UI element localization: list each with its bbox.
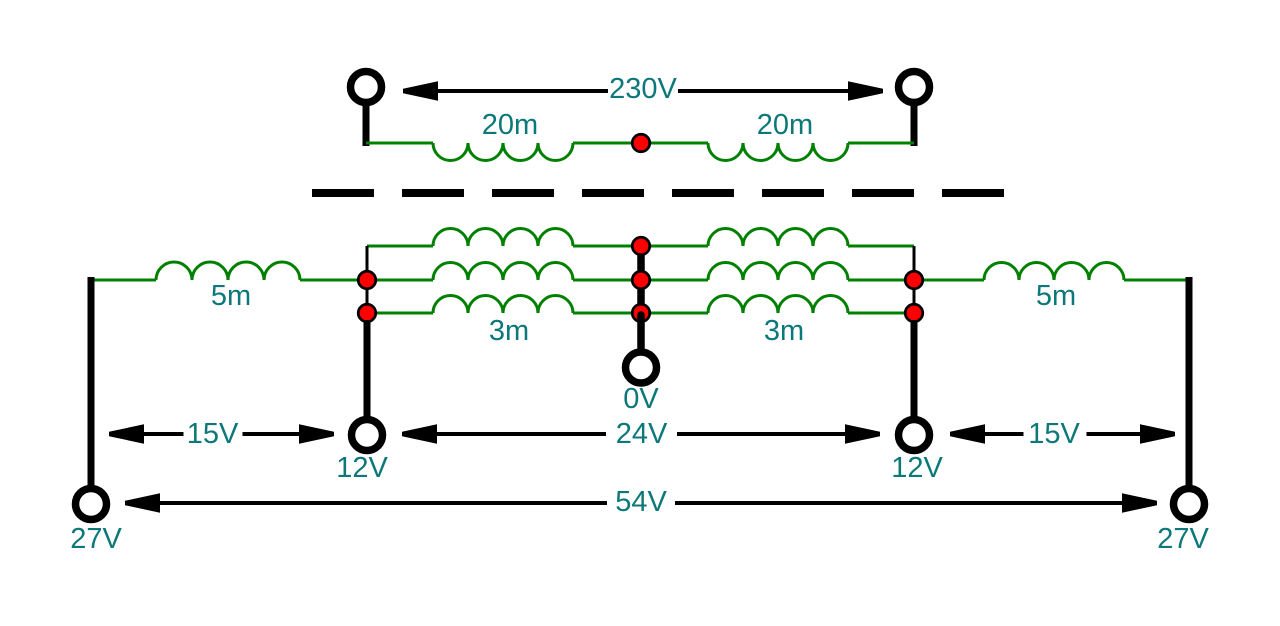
wire left junction vertical row1-row3 [366,246,369,313]
svg-text:20m: 20m [482,109,538,141]
junction node left row3 [358,304,376,322]
node primary centre tap [632,134,650,152]
svg-text:27V: 27V [1157,523,1209,555]
junction node right row2 [905,271,923,289]
terminal T1 primary left (230V) [351,72,382,147]
junction node centre row2 [632,271,650,289]
inductor L8 5m right winding [984,263,1124,281]
wire row3 left [367,312,433,315]
wire right junction vertical row1-row3 [913,246,916,313]
svg-text:27V: 27V [70,523,122,555]
arrow 15V left double-headed [109,424,334,444]
wire right stem to 12V terminal [911,320,918,417]
inductor L10 3m right winding [708,296,848,314]
arrow 54V double-headed [125,493,1157,513]
wire row2 far right [1124,279,1192,282]
inductor L7 secondary row2 right winding [708,263,848,281]
transformer core dashed line [312,189,1004,197]
terminal 0V [626,352,657,383]
wire secondary row1 right [848,245,914,248]
svg-text:54V: 54V [615,486,667,518]
svg-text:3m: 3m [489,315,529,347]
terminal T2 primary right (230V) [899,72,930,147]
junction node right row3 [905,304,923,322]
wire row2 left [300,279,433,282]
wire left stem to 12V terminal [364,320,371,417]
terminal 12V right [899,420,930,451]
inductor L6 secondary row2 left winding [433,263,573,281]
terminal 12V left [352,420,383,451]
svg-text:24V: 24V [616,418,668,450]
wire centre stem to 0V terminal [637,315,645,351]
svg-text:3m: 3m [764,315,804,347]
inductor L9 3m left winding [433,296,573,314]
terminal 27V left [76,489,107,520]
svg-text:0V: 0V [623,383,659,415]
arrow 24V double-headed [402,424,880,444]
wire row2 right [848,279,984,282]
svg-text:20m: 20m [757,109,813,141]
arrow 230V double-headed [403,81,883,101]
wire right outer drop to 27V terminal [1186,277,1193,486]
svg-text:5m: 5m [1036,280,1076,312]
svg-text:12V: 12V [336,452,388,484]
inductor L4 secondary row1 right winding [708,229,848,247]
svg-text:15V: 15V [1028,418,1080,450]
wire primary left [366,142,433,145]
wire primary centre [573,142,708,145]
inductor L2 20m primary right winding [708,143,848,161]
junction node left row2 [358,271,376,289]
wire primary right [848,142,914,145]
inductor L3 secondary row1 left winding [433,229,573,247]
junction node centre row1 [632,237,650,255]
wire row3 right [848,312,914,315]
svg-text:15V: 15V [187,418,239,450]
inductor L1 20m primary left winding [433,143,573,161]
terminal 27V right [1174,489,1205,520]
arrow 15V right double-headed [950,424,1175,444]
wire row3 centre [573,312,708,315]
wire secondary row1 centre [573,245,708,248]
wire secondary row1 left [367,245,433,248]
inductor L5 5m left winding [156,262,300,280]
wire row2 far left [88,279,156,282]
wire left outer drop to 27V terminal [88,277,95,486]
wire centre bus row1-row3 [637,246,645,313]
svg-text:230V: 230V [609,73,677,105]
wire row2 centre [573,279,708,282]
svg-text:5m: 5m [211,280,251,312]
junction node centre row3 [632,304,650,322]
svg-text:12V: 12V [891,452,943,484]
